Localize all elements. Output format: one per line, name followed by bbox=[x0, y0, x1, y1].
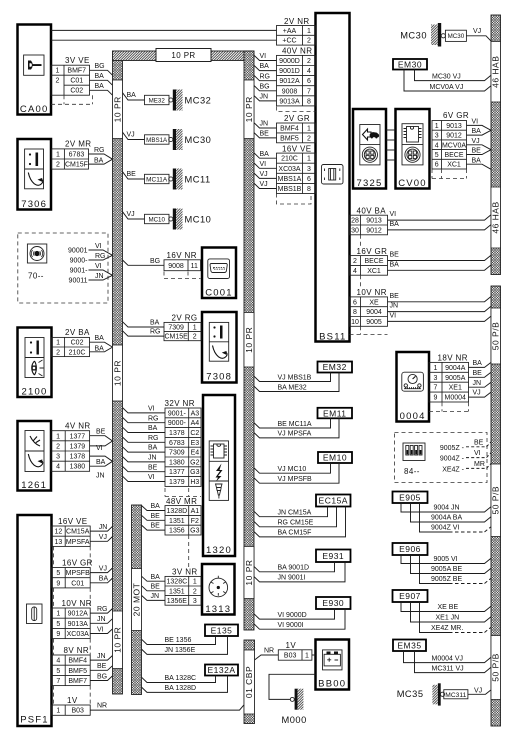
wire 9001I JN to E931 bbox=[254, 562, 345, 582]
wire XC1 BA bbox=[467, 164, 492, 169]
wire 48V MR BE bbox=[142, 525, 166, 530]
wire 16V VE VJ bbox=[254, 183, 277, 188]
svg-text:E3: E3 bbox=[191, 440, 200, 447]
svg-text:6: 6 bbox=[307, 78, 311, 85]
wire 9001D BA to E931 bbox=[254, 562, 335, 572]
svg-text:7: 7 bbox=[434, 385, 438, 392]
svg-text:9: 9 bbox=[56, 580, 60, 587]
svg-text:BECE: BECE bbox=[364, 258, 383, 265]
svg-text:BE: BE bbox=[473, 370, 483, 377]
svg-text:9005A BE: 9005A BE bbox=[431, 566, 462, 573]
svg-text:MC32: MC32 bbox=[185, 96, 212, 106]
svg-text:VJ: VJ bbox=[472, 138, 480, 145]
svg-text:3V VE: 3V VE bbox=[65, 56, 90, 65]
svg-text:BA: BA bbox=[95, 83, 105, 90]
svg-text:VI: VI bbox=[95, 243, 102, 250]
svg-text:1: 1 bbox=[56, 340, 60, 347]
svg-text:16V GR: 16V GR bbox=[357, 247, 388, 256]
wire 32V NR RG bbox=[123, 437, 166, 442]
svg-text:1: 1 bbox=[56, 68, 60, 75]
svg-text:7309: 7309 bbox=[168, 324, 184, 331]
svg-text:E907: E907 bbox=[399, 591, 421, 601]
svg-text:2V MR: 2V MR bbox=[65, 140, 91, 149]
svg-text:2: 2 bbox=[307, 38, 311, 45]
wire 9013 VI bbox=[388, 215, 492, 220]
svg-text:VJ: VJ bbox=[474, 687, 482, 694]
wire 9013 VI bbox=[467, 125, 492, 130]
wire 3V NR BE bbox=[142, 586, 166, 591]
svg-text:MBS1A: MBS1A bbox=[278, 176, 302, 183]
splice EC15A bbox=[316, 495, 351, 507]
svg-text:JN: JN bbox=[473, 380, 482, 387]
dashed joins between PSF1 tables bbox=[54, 546, 91, 567]
svg-text:CM15E: CM15E bbox=[164, 334, 188, 341]
svg-text:EM30: EM30 bbox=[398, 59, 422, 69]
svg-text:1356E: 1356E bbox=[167, 598, 188, 605]
svg-text:2: 2 bbox=[193, 334, 197, 341]
svg-text:BA: BA bbox=[94, 157, 104, 164]
telephone unit 7308 bbox=[202, 312, 237, 383]
svg-text:C01: C01 bbox=[71, 580, 84, 587]
wire +AA bbox=[51, 29, 277, 31]
svg-text:7: 7 bbox=[56, 678, 60, 685]
svg-text:M0004: M0004 bbox=[445, 395, 467, 402]
svg-text:46 HAB: 46 HAB bbox=[491, 201, 501, 233]
wire B03 NR to 01 CBP bbox=[90, 705, 244, 710]
svg-text:JN 1356E: JN 1356E bbox=[165, 647, 196, 654]
svg-text:8: 8 bbox=[353, 309, 357, 316]
svg-text:28: 28 bbox=[351, 218, 359, 225]
svg-text:BA: BA bbox=[473, 360, 483, 367]
svg-text:40V BA: 40V BA bbox=[357, 206, 387, 215]
ignition module 1313 bbox=[202, 564, 235, 615]
svg-text:1V: 1V bbox=[67, 696, 78, 705]
link wire 7325-CV00 y160 bbox=[386, 159, 396, 161]
svg-text:10 PR: 10 PR bbox=[244, 96, 254, 122]
svg-text:BE: BE bbox=[96, 429, 106, 436]
svg-text:BA 1328D: BA 1328D bbox=[165, 685, 197, 692]
svg-text:210C: 210C bbox=[281, 156, 298, 163]
svg-text:BECE: BECE bbox=[444, 152, 463, 159]
svg-text:10 PR: 10 PR bbox=[171, 51, 195, 60]
svg-text:1380: 1380 bbox=[169, 459, 185, 466]
svg-text:XE: XE bbox=[369, 299, 379, 306]
wire MPSFB VJ to EM10 bbox=[254, 463, 339, 483]
svg-text:RG CM15E: RG CM15E bbox=[278, 520, 314, 527]
wire 18V NR BE bbox=[469, 372, 492, 377]
svg-text:BA: BA bbox=[150, 320, 160, 327]
svg-text:2: 2 bbox=[56, 349, 60, 356]
wire 32V NR VI bbox=[123, 408, 166, 413]
wire 32V NR RG bbox=[123, 417, 166, 422]
svg-text:BG: BG bbox=[97, 673, 107, 680]
svg-text:1: 1 bbox=[434, 365, 438, 372]
svg-text:JN: JN bbox=[151, 593, 160, 600]
ignition switch CA00 bbox=[18, 25, 52, 116]
svg-text:BA ME32: BA ME32 bbox=[278, 384, 307, 391]
wire 9008 BG bbox=[123, 260, 165, 265]
svg-text:7309: 7309 bbox=[169, 450, 185, 457]
svg-text:MC11: MC11 bbox=[185, 175, 211, 185]
wire 32V NR JN bbox=[123, 457, 166, 462]
svg-text:7306: 7306 bbox=[21, 199, 47, 210]
svg-text:E135: E135 bbox=[211, 625, 233, 635]
svg-text:50 P/B: 50 P/B bbox=[491, 486, 501, 515]
svg-text:1378: 1378 bbox=[70, 454, 86, 461]
svg-text:XE1: XE1 bbox=[449, 385, 462, 392]
top band of central unit bbox=[113, 51, 255, 61]
ground wire to M000 bbox=[269, 674, 316, 699]
wire B03 NR from 01 CBP bbox=[255, 655, 279, 660]
svg-text:VJ: VJ bbox=[99, 534, 107, 541]
svg-text:BB00: BB00 bbox=[318, 679, 346, 690]
svg-text:7: 7 bbox=[307, 88, 311, 95]
svg-text:11: 11 bbox=[191, 263, 198, 270]
splice EM30 bbox=[393, 59, 427, 70]
wire BECE BE bbox=[467, 150, 492, 155]
svg-text:BG: BG bbox=[260, 83, 270, 90]
svg-text:BMF7: BMF7 bbox=[67, 68, 86, 75]
wire 9012 BA bbox=[467, 130, 492, 135]
wire BMF4 JN bbox=[90, 656, 112, 661]
svg-text:CA00: CA00 bbox=[20, 104, 49, 115]
svg-text:1: 1 bbox=[307, 125, 311, 132]
svg-text:2: 2 bbox=[307, 58, 311, 65]
wire 18V NR JN bbox=[469, 382, 492, 387]
svg-text:9004 JN: 9004 JN bbox=[434, 505, 460, 512]
wire MCV0A VJ bbox=[467, 145, 492, 150]
wire XC1 BA bbox=[388, 265, 492, 270]
svg-text:+CC: +CC bbox=[282, 38, 296, 45]
wire XE BE bbox=[388, 297, 492, 302]
svg-text:RG: RG bbox=[260, 73, 271, 80]
svg-text:BE: BE bbox=[148, 464, 158, 471]
svg-text:VI: VI bbox=[472, 118, 479, 125]
wire 9012 BA bbox=[388, 225, 492, 230]
svg-text:48V MR: 48V MR bbox=[166, 497, 197, 506]
svg-text:C2: C2 bbox=[190, 430, 199, 437]
svg-text:VI: VI bbox=[148, 474, 155, 481]
wire 40V NR BG bbox=[254, 86, 277, 91]
svg-text:BA: BA bbox=[151, 503, 161, 510]
link wire 7325-CV00 y150 bbox=[386, 149, 396, 151]
svg-text:MBS1B: MBS1B bbox=[278, 186, 302, 193]
wire C01 BA bbox=[90, 578, 112, 583]
body control unit BS11 bbox=[316, 13, 350, 343]
svg-text:9008: 9008 bbox=[282, 88, 298, 95]
svg-text:MC311 VJ: MC311 VJ bbox=[432, 665, 464, 672]
splice EM32 bbox=[318, 362, 353, 373]
wire ME32 BA to EM32 bbox=[254, 373, 339, 392]
svg-text:32V NR: 32V NR bbox=[165, 399, 195, 408]
svg-text:BE: BE bbox=[151, 583, 161, 590]
svg-text:PSF1: PSF1 bbox=[20, 715, 49, 726]
alarm control 2100 bbox=[18, 328, 52, 398]
svg-text:MC35: MC35 bbox=[397, 689, 424, 699]
instrument cluster 0004 bbox=[397, 352, 430, 422]
wire 1356E JN to E135 bbox=[142, 636, 228, 654]
wire 210C BA bbox=[90, 347, 113, 352]
svg-text:1: 1 bbox=[193, 324, 197, 331]
svg-text:RG: RG bbox=[148, 435, 159, 442]
anti-theft / immobiliser 7325 bbox=[353, 109, 386, 189]
svg-text:BE: BE bbox=[390, 252, 400, 259]
svg-text:VJ: VJ bbox=[99, 565, 107, 572]
svg-text:CM15A: CM15A bbox=[66, 529, 90, 536]
svg-text:5: 5 bbox=[56, 621, 60, 628]
svg-text:MR: MR bbox=[474, 461, 485, 468]
svg-text:1377: 1377 bbox=[169, 469, 185, 476]
svg-text:10 PR: 10 PR bbox=[112, 627, 122, 653]
svg-text:2100: 2100 bbox=[22, 387, 48, 398]
svg-text:9005: 9005 bbox=[366, 319, 382, 326]
wire 2V GR BE bbox=[254, 133, 277, 138]
svg-text:90011: 90011 bbox=[69, 278, 88, 285]
svg-text:VI: VI bbox=[260, 53, 267, 60]
svg-text:E905: E905 bbox=[399, 492, 421, 502]
svg-text:BA: BA bbox=[148, 425, 158, 432]
svg-text:JN: JN bbox=[95, 273, 104, 280]
svg-text:MBS1A: MBS1A bbox=[146, 137, 168, 144]
svg-text:A1: A1 bbox=[191, 508, 200, 515]
splice EM10 bbox=[318, 452, 352, 463]
svg-text:BA: BA bbox=[390, 221, 400, 228]
svg-text:BMF4: BMF4 bbox=[68, 658, 87, 665]
wire 9005A BE from E906 bbox=[411, 555, 492, 574]
svg-text:VJ: VJ bbox=[127, 132, 135, 139]
svg-text:EM35: EM35 bbox=[397, 640, 421, 650]
wire CM15E RG to EC15A bbox=[254, 507, 337, 527]
wire 32V NR BA bbox=[123, 427, 166, 432]
wire C02 BA bbox=[90, 342, 113, 347]
svg-text:JN CM15A: JN CM15A bbox=[278, 509, 312, 516]
svg-text:MC30: MC30 bbox=[400, 31, 427, 41]
svg-text:3: 3 bbox=[307, 166, 311, 173]
svg-text:XC1: XC1 bbox=[447, 162, 461, 169]
svg-text:BA: BA bbox=[96, 459, 106, 466]
wire 16V VE VI bbox=[254, 163, 277, 168]
svg-text:10: 10 bbox=[351, 319, 359, 326]
svg-text:BE: BE bbox=[260, 131, 270, 138]
svg-text:BE: BE bbox=[97, 663, 107, 670]
wire CM15F BA to EC15A bbox=[254, 507, 346, 537]
svg-text:BG: BG bbox=[95, 63, 105, 70]
svg-text:1V: 1V bbox=[286, 641, 297, 650]
wire MC11A BE to EM11 bbox=[254, 418, 331, 428]
svg-text:1320: 1320 bbox=[206, 545, 232, 556]
svg-text:70--: 70-- bbox=[28, 272, 44, 281]
svg-text:RG: RG bbox=[95, 253, 106, 260]
svg-text:3: 3 bbox=[434, 375, 438, 382]
svg-text:RG: RG bbox=[150, 329, 161, 336]
splice connector MC30 top right bbox=[400, 23, 491, 47]
svg-text:XE4Z -: XE4Z - bbox=[442, 466, 464, 473]
svg-text:16V VE: 16V VE bbox=[58, 517, 88, 526]
svg-text:50 P/B: 50 P/B bbox=[491, 653, 501, 682]
svg-text:90001: 90001 bbox=[68, 248, 88, 255]
svg-text:6V GR: 6V GR bbox=[443, 111, 469, 120]
svg-text:BE: BE bbox=[472, 148, 482, 155]
wire 1328C BA to E132A bbox=[142, 676, 216, 683]
svg-text:BA: BA bbox=[260, 151, 270, 158]
connector bar 46 HAB bbox=[491, 15, 501, 275]
option unit 84-- (dashed box) bbox=[395, 433, 488, 483]
svg-text:6: 6 bbox=[435, 162, 439, 169]
splice EM35 bbox=[393, 640, 426, 652]
svg-text:JN: JN bbox=[260, 94, 269, 101]
svg-text:20 MOT: 20 MOT bbox=[131, 583, 141, 617]
svg-text:9000-: 9000- bbox=[70, 258, 89, 265]
wire 9004Z VI from E905 bbox=[420, 503, 450, 532]
svg-text:9004A BA: 9004A BA bbox=[431, 515, 462, 522]
connector bar 01 CBP bbox=[244, 640, 255, 724]
svg-text:VJ: VJ bbox=[260, 181, 268, 188]
svg-text:9012: 9012 bbox=[446, 133, 462, 140]
svg-text:2: 2 bbox=[56, 162, 60, 169]
svg-text:9008: 9008 bbox=[168, 263, 184, 270]
wire 40V NR BA bbox=[254, 65, 277, 70]
svg-text:JN: JN bbox=[97, 616, 106, 623]
svg-text:VJ: VJ bbox=[473, 390, 481, 397]
svg-text:JN: JN bbox=[148, 455, 157, 462]
svg-text:BA 1328C: BA 1328C bbox=[165, 675, 197, 682]
svg-text:VJ MPSFB: VJ MPSFB bbox=[278, 476, 313, 483]
svg-text:M0004 VJ: M0004 VJ bbox=[432, 655, 464, 662]
svg-text:210C: 210C bbox=[69, 349, 86, 356]
svg-text:5: 5 bbox=[56, 570, 60, 577]
wire 48V MR BA bbox=[142, 506, 166, 511]
svg-text:8V NR: 8V NR bbox=[64, 646, 90, 655]
svg-text:9005 VI: 9005 VI bbox=[434, 556, 458, 563]
svg-text:F2: F2 bbox=[191, 518, 199, 525]
svg-text:NR: NR bbox=[264, 647, 274, 654]
svg-text:EM32: EM32 bbox=[323, 362, 347, 372]
wire 9004 JN from E905 bbox=[401, 503, 491, 512]
siren 70-- (dashed option box) bbox=[18, 233, 108, 303]
wire CM15F BA bbox=[89, 159, 113, 164]
svg-text:G3: G3 bbox=[190, 528, 199, 535]
svg-text:9000D: 9000D bbox=[279, 58, 300, 65]
svg-text:3V NR: 3V NR bbox=[172, 567, 198, 576]
wire MBS1B VJ to EM32 bbox=[254, 373, 331, 382]
svg-text:5: 5 bbox=[435, 152, 439, 159]
svg-text:BMF4: BMF4 bbox=[280, 125, 299, 132]
splice connector MC30 bbox=[123, 129, 212, 150]
wire CM15A JN bbox=[90, 526, 112, 531]
svg-text:1351: 1351 bbox=[169, 588, 185, 595]
svg-text:9001-: 9001- bbox=[70, 268, 89, 275]
svg-text:M000: M000 bbox=[282, 715, 307, 725]
engine ECU 1320 bbox=[203, 395, 235, 556]
wire 18V NR BA bbox=[469, 362, 492, 367]
wire 9012A RG bbox=[90, 609, 112, 614]
svg-text:50 P/B: 50 P/B bbox=[491, 322, 501, 351]
svg-text:9004: 9004 bbox=[366, 309, 382, 316]
wire 48V MR BE bbox=[142, 515, 166, 520]
wire 2V GR JN bbox=[254, 123, 277, 128]
svg-text:84--: 84-- bbox=[404, 467, 420, 476]
wire 9000D VI to E930 bbox=[254, 609, 335, 619]
svg-text:E132A: E132A bbox=[207, 665, 235, 675]
svg-text:XE BE: XE BE bbox=[438, 604, 459, 611]
svg-text:18V NR: 18V NR bbox=[438, 354, 468, 363]
svg-text:E4: E4 bbox=[191, 450, 200, 457]
svg-text:10 PR: 10 PR bbox=[112, 96, 122, 122]
splice EM11 bbox=[318, 408, 353, 419]
svg-text:9005Z BE: 9005Z BE bbox=[431, 576, 462, 583]
svg-text:7325: 7325 bbox=[357, 178, 383, 189]
svg-text:ME32: ME32 bbox=[149, 97, 166, 104]
svg-text:MC10: MC10 bbox=[148, 216, 165, 223]
svg-text:01 CBP: 01 CBP bbox=[244, 666, 254, 698]
svg-text:CV00: CV00 bbox=[398, 178, 427, 189]
svg-text:E930: E930 bbox=[322, 598, 344, 608]
svg-text:BA: BA bbox=[472, 157, 482, 164]
svg-text:BA: BA bbox=[151, 574, 161, 581]
wire BECE BE bbox=[388, 255, 492, 260]
multifunction display 7306 bbox=[18, 139, 52, 210]
wire 40V NR JN bbox=[254, 96, 277, 101]
svg-text:JN 9001I: JN 9001I bbox=[278, 575, 306, 582]
wire 16V VE VJ bbox=[254, 173, 277, 178]
svg-text:BE: BE bbox=[390, 293, 400, 300]
left connector bar 10 PR bbox=[112, 51, 122, 694]
svg-text:BA: BA bbox=[99, 576, 109, 583]
wire 1379 VI bbox=[90, 441, 113, 446]
wire 9004 JN bbox=[388, 306, 492, 311]
svg-text:BA: BA bbox=[95, 335, 105, 342]
svg-text:VI: VI bbox=[260, 161, 267, 168]
svg-text:9013A: 9013A bbox=[68, 621, 89, 628]
svg-text:BE: BE bbox=[151, 523, 161, 530]
wire 9004A BA from E905 bbox=[411, 503, 492, 522]
svg-text:MC311: MC311 bbox=[445, 692, 467, 699]
svg-text:+AA: +AA bbox=[283, 28, 297, 35]
wire 18V NR VJ bbox=[469, 392, 492, 397]
svg-text:10 PR: 10 PR bbox=[244, 559, 254, 585]
svg-text:9012A: 9012A bbox=[68, 611, 89, 618]
svg-text:9013: 9013 bbox=[366, 218, 382, 225]
svg-text:3: 3 bbox=[56, 454, 60, 461]
svg-text:VI: VI bbox=[390, 313, 397, 320]
svg-text:MC10: MC10 bbox=[185, 215, 212, 225]
svg-text:BE: BE bbox=[127, 171, 137, 178]
svg-text:16V VE: 16V VE bbox=[282, 144, 312, 153]
svg-text:B03: B03 bbox=[284, 653, 297, 660]
link wire 7325-CV00 y140 bbox=[386, 139, 396, 141]
svg-text:4: 4 bbox=[435, 142, 439, 149]
svg-text:9012: 9012 bbox=[366, 227, 382, 234]
wire XE1 JN from E907 bbox=[411, 602, 492, 622]
svg-text:G2: G2 bbox=[190, 459, 199, 466]
wire MC10 VJ to EM10 bbox=[254, 463, 331, 473]
svg-text:VJ MC10: VJ MC10 bbox=[278, 466, 307, 473]
wire C01 BA bbox=[90, 80, 113, 85]
splice connector MC32 bbox=[123, 90, 212, 111]
svg-text:VI 9000I: VI 9000I bbox=[278, 622, 304, 629]
svg-text:BS11: BS11 bbox=[319, 332, 346, 343]
svg-text:40V NR: 40V NR bbox=[282, 47, 312, 56]
battery BB00 bbox=[316, 640, 350, 690]
svg-text:BA 9001D: BA 9001D bbox=[278, 565, 310, 572]
right connector bar 10 PR bbox=[244, 51, 254, 630]
dashed continuation under CA00 table bbox=[51, 95, 93, 104]
wire BMF7 BG bbox=[90, 676, 112, 681]
wire MPSFA VJ to EM11 bbox=[254, 418, 339, 438]
svg-text:6: 6 bbox=[307, 176, 311, 183]
svg-text:5: 5 bbox=[56, 668, 60, 675]
svg-text:1: 1 bbox=[307, 28, 311, 35]
